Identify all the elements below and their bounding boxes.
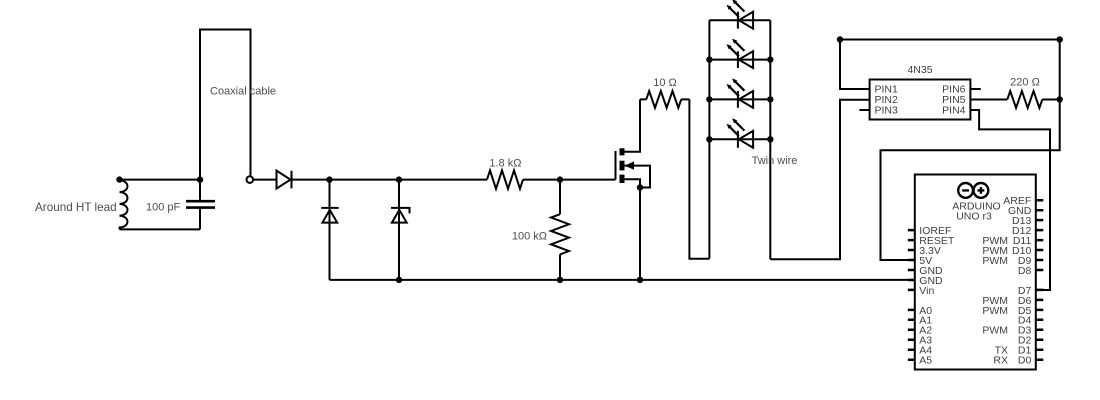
U1 PIN3 stub [859, 109, 869, 111]
diode D2 vertical branch wire [329, 180, 331, 280]
svg-text:10 Ω: 10 Ω [653, 77, 677, 89]
transistor Q1 drain wire [625, 99, 641, 151]
node rail R2 [557, 277, 563, 283]
resistor R1 1.8 kOhm [487, 170, 523, 188]
svg-text:Vin: Vin [919, 285, 934, 297]
svg-text:PIN4: PIN4 [942, 105, 966, 117]
transistor Q1 body line [625, 166, 651, 188]
svg-text:RX: RX [993, 355, 1008, 367]
terminal open circle [247, 176, 254, 183]
wire coil top to capacitor top [120, 179, 201, 181]
top rail wire [840, 40, 1060, 261]
resistor R3 10 Ohm leads [640, 98, 689, 100]
resistor R2 100 kOhm [551, 214, 569, 254]
transistor Q1 gate bar [615, 151, 617, 180]
inductor L1 pickup coil [120, 180, 128, 230]
LED stack left rail [708, 20, 710, 259]
node A [326, 176, 332, 182]
svg-text:UNO r3: UNO r3 [956, 210, 992, 222]
node LED3 left [706, 96, 712, 102]
node LED4 left [706, 136, 712, 142]
svg-text:D8: D8 [1018, 265, 1032, 277]
svg-text:Coaxial cable: Coaxial cable [210, 85, 276, 97]
node LED2 left [706, 56, 712, 62]
svg-text:Around HT lead: Around HT lead [35, 201, 117, 214]
wire R4 to node [1042, 99, 1059, 101]
wire PIN5 to R4 [970, 99, 1007, 101]
U2 right pin stubs [1036, 200, 1044, 360]
zener D3 branch wire [398, 180, 400, 280]
node LED2 right [767, 56, 773, 62]
svg-text:PWM: PWM [982, 305, 1008, 317]
wire PIN1 to top rail [840, 40, 870, 90]
wire coil bottom to capacitor bottom [120, 228, 201, 230]
op-amp U1 4N35 body [870, 80, 971, 120]
LED stack right rail [769, 20, 771, 259]
zener D3 [391, 208, 410, 223]
svg-text:220 Ω: 220 Ω [1010, 77, 1040, 89]
wire R1 to gate [523, 179, 616, 181]
ground rail wire [330, 279, 915, 281]
svg-text:100 pF: 100 pF [146, 201, 181, 213]
wire PIN4 to D7 [970, 110, 1050, 290]
arduino logo [958, 183, 988, 198]
U1 PIN6 stub [970, 88, 980, 90]
capacitor C1 plates [186, 201, 215, 207]
resistor R3 10 Ohm [646, 91, 681, 108]
capacitor C1 leads [199, 180, 201, 230]
node top rail right [1057, 36, 1063, 42]
node gate / R2 top [557, 176, 563, 182]
U2 left pin stubs [908, 230, 915, 360]
node LED4 right [767, 136, 773, 142]
diode D2 [321, 208, 339, 223]
node coil top [116, 176, 122, 182]
svg-text:A5: A5 [919, 355, 932, 367]
transistor Q1 body arrowhead [625, 161, 635, 169]
wire R3 to LED rail (U detour) [689, 99, 709, 258]
node rail D3 [396, 277, 402, 283]
transistor Q1 source wire [625, 179, 641, 280]
diode D1 [277, 171, 292, 189]
resistor R2 100 kOhm leads [559, 180, 561, 280]
transistor Q1 channel bars [620, 148, 625, 183]
resistor R4 220 Ohm [1007, 91, 1042, 108]
wire D1 to resistor R1 [292, 179, 488, 181]
svg-text:D0: D0 [1018, 355, 1032, 367]
wire terminal to diode D1 [253, 179, 276, 181]
svg-text:4N35: 4N35 [907, 64, 932, 76]
node rail Q1 source [637, 277, 643, 283]
node source/body [637, 184, 643, 190]
node LED3 right [767, 96, 773, 102]
wire LED right rail to 4N35 PIN2 [770, 100, 869, 260]
LED LED1 [727, 0, 754, 29]
arduino U2 body [915, 175, 1036, 370]
svg-text:1.8 kΩ: 1.8 kΩ [489, 158, 521, 170]
node top rail left [837, 36, 843, 42]
LED LED2 [727, 39, 754, 68]
svg-text:PWM: PWM [982, 325, 1008, 337]
LED row wire 2 [709, 59, 770, 61]
LED row wire 3 [709, 98, 770, 100]
svg-text:PIN3: PIN3 [875, 105, 899, 117]
LED LED3 [727, 78, 754, 107]
coaxial cable loop wire [200, 30, 251, 180]
svg-text:PWM: PWM [982, 255, 1008, 267]
node 220 right [1057, 96, 1063, 102]
svg-text:100 kΩ: 100 kΩ [512, 231, 547, 243]
LED LED4 [727, 118, 754, 147]
node B [396, 176, 402, 182]
node capacitor top / coax [197, 176, 203, 182]
LED row wire 4 [709, 138, 770, 140]
svg-text:Twin wire: Twin wire [752, 155, 798, 167]
LED row wire 1 [709, 19, 770, 21]
